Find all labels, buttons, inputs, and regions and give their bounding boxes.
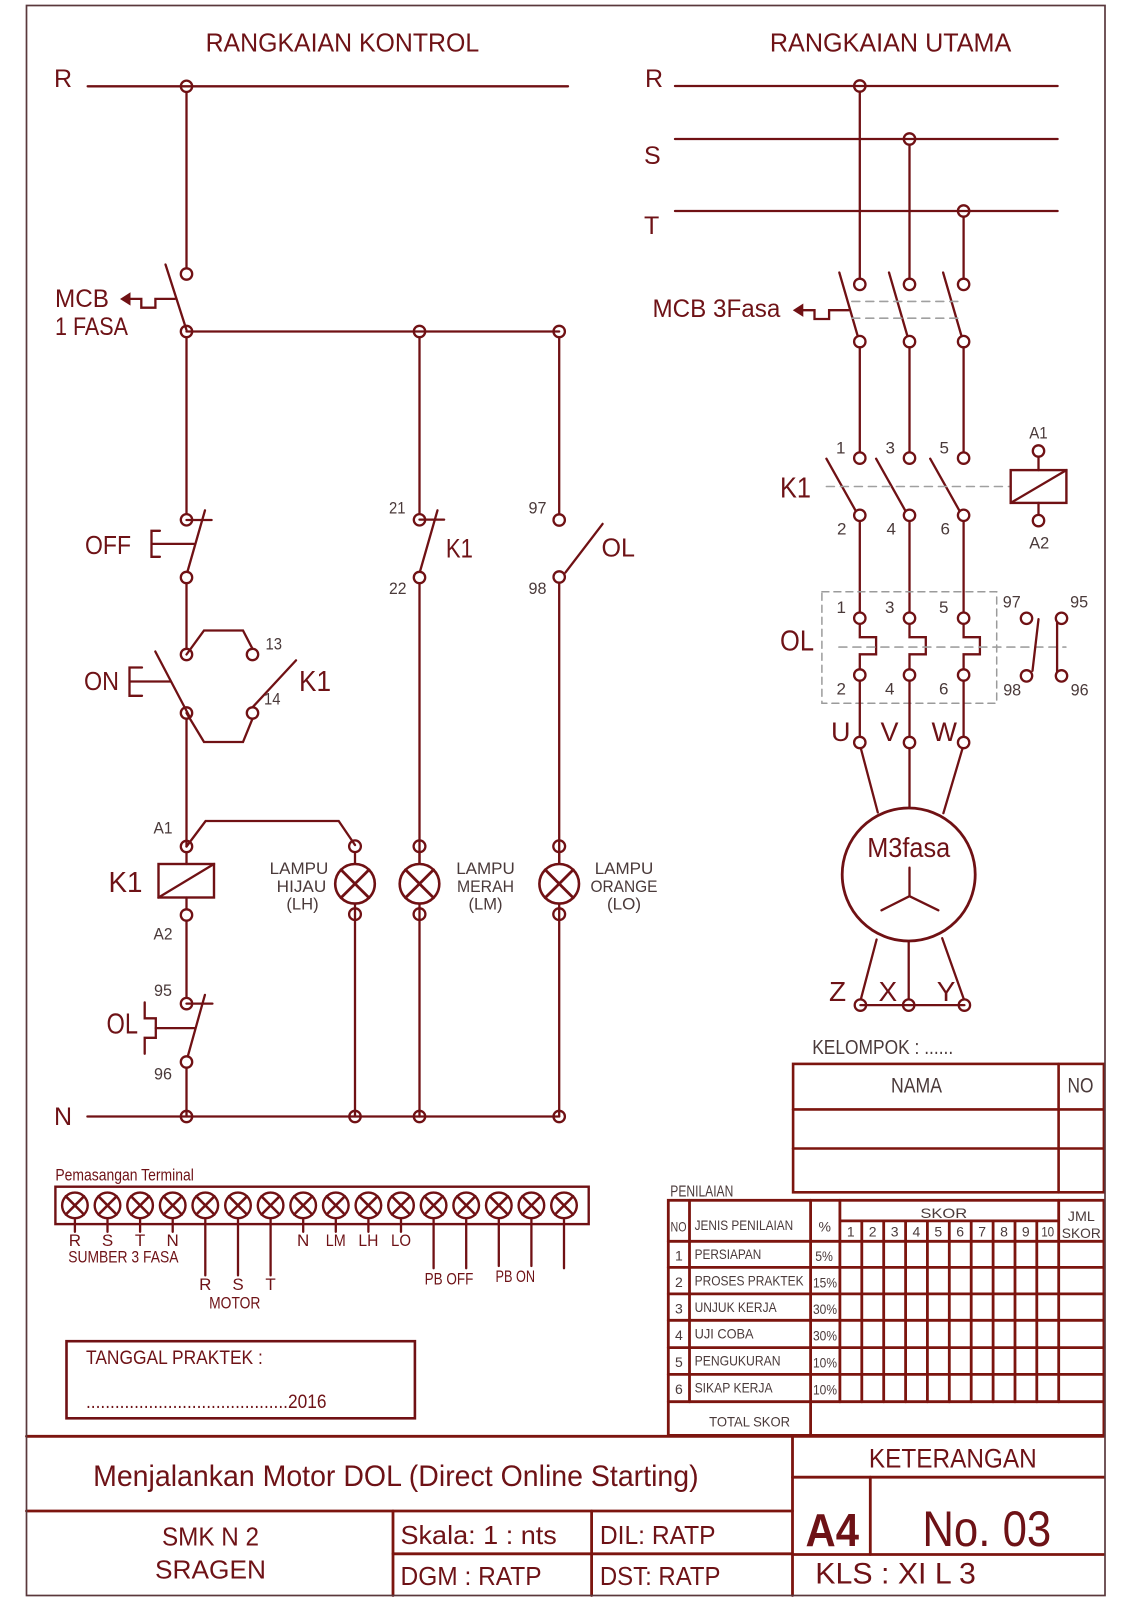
svg-text:4: 4 bbox=[885, 680, 894, 699]
node A1 (control coil) bbox=[181, 841, 192, 852]
terminal Y bbox=[959, 999, 970, 1010]
wire A1 bridge to lamp LH bbox=[187, 821, 356, 847]
lamp LH (hijau) bbox=[335, 840, 375, 1116]
lamp LO (orange) bbox=[539, 840, 579, 1116]
wire bus to OFF bbox=[185, 337, 187, 514]
terminal W bbox=[958, 737, 969, 748]
svg-text:N: N bbox=[297, 1231, 309, 1250]
svg-text:LAMPU: LAMPU bbox=[456, 859, 515, 878]
wire motor to Z bbox=[861, 940, 877, 1000]
wire OL pin6 to W bbox=[962, 681, 964, 737]
wire MCB to K1 pin 1 bbox=[859, 347, 861, 452]
svg-text:13: 13 bbox=[266, 635, 283, 654]
svg-text:KELOMPOK : ......: KELOMPOK : ...... bbox=[812, 1037, 953, 1059]
svg-text:ON: ON bbox=[84, 666, 119, 696]
table PENILAIAN grid bbox=[668, 1200, 1104, 1435]
svg-text:98: 98 bbox=[529, 579, 547, 598]
terminal X bbox=[903, 999, 914, 1010]
seal-in contact K1 13-14 bbox=[187, 631, 297, 743]
svg-text:T: T bbox=[644, 212, 659, 240]
svg-text:MCB 3Fasa: MCB 3Fasa bbox=[653, 295, 781, 323]
svg-text:1: 1 bbox=[837, 598, 846, 617]
wire A2 to OL 95 bbox=[185, 921, 187, 998]
node N at lamp LM bbox=[414, 1111, 425, 1122]
svg-text:6: 6 bbox=[675, 1381, 683, 1397]
wire R to MCB pole 1 bbox=[859, 92, 861, 279]
svg-text:NO: NO bbox=[1068, 1075, 1094, 1098]
svg-text:1 FASA: 1 FASA bbox=[55, 313, 128, 341]
svg-text:W: W bbox=[932, 717, 958, 747]
svg-text:96: 96 bbox=[1071, 681, 1089, 700]
svg-text:JENIS PENILAIAN: JENIS PENILAIAN bbox=[695, 1217, 794, 1233]
svg-text:(LM): (LM) bbox=[469, 895, 503, 914]
wire bus to contact 21 bbox=[418, 337, 420, 514]
svg-text:KETERANGAN: KETERANGAN bbox=[869, 1444, 1037, 1474]
svg-text:S: S bbox=[232, 1275, 243, 1294]
node A2 (control coil) bbox=[181, 909, 192, 920]
svg-text:R: R bbox=[645, 65, 663, 93]
svg-text:97: 97 bbox=[1003, 593, 1021, 612]
table PENILAIAN skor numbers bbox=[847, 1224, 1054, 1240]
svg-text:U: U bbox=[831, 717, 851, 747]
wire OL pin2 to U bbox=[859, 681, 861, 737]
svg-text:OL: OL bbox=[107, 1009, 139, 1041]
svg-text:1: 1 bbox=[675, 1248, 683, 1264]
svg-text:LH: LH bbox=[358, 1231, 378, 1250]
wire 22 to lamp LM bbox=[418, 583, 420, 864]
box TANGGAL PRAKTEK bbox=[67, 1341, 415, 1418]
svg-text:30%: 30% bbox=[813, 1301, 837, 1317]
svg-text:X: X bbox=[879, 976, 898, 1007]
wire ON to A1 bbox=[185, 719, 187, 847]
contact K1 21-22 (NC) bbox=[414, 510, 444, 583]
wire Z-X-Y link bbox=[860, 1004, 964, 1006]
svg-text:NAMA: NAMA bbox=[891, 1075, 942, 1098]
svg-text:3: 3 bbox=[885, 598, 894, 617]
wire MCB 1 FASA feed bbox=[185, 92, 187, 267]
breaker MCB 3Fasa bbox=[793, 273, 970, 348]
table PENILAIAN rows text bbox=[675, 1246, 837, 1430]
svg-text:SUMBER 3 FASA: SUMBER 3 FASA bbox=[68, 1248, 179, 1267]
svg-text:22: 22 bbox=[389, 579, 407, 598]
svg-text:Skala: 1 : nts: Skala: 1 : nts bbox=[401, 1520, 557, 1550]
svg-text:MCB: MCB bbox=[55, 285, 109, 313]
terminal tails bbox=[75, 1218, 564, 1275]
svg-text:PB OFF: PB OFF bbox=[425, 1270, 474, 1289]
svg-text:SKOR: SKOR bbox=[920, 1205, 967, 1221]
wire S to MCB pole 2 bbox=[908, 145, 910, 279]
svg-text:9: 9 bbox=[1022, 1224, 1030, 1240]
node N at coil branch bbox=[181, 1111, 192, 1122]
wire N bus bbox=[87, 1115, 559, 1117]
wire K1 pin4 to OL pin3 bbox=[908, 521, 910, 613]
svg-text:SKOR: SKOR bbox=[1062, 1225, 1101, 1241]
svg-text:OL: OL bbox=[602, 533, 636, 563]
svg-text:10%: 10% bbox=[813, 1382, 837, 1398]
svg-text:TANGGAL PRAKTEK :: TANGGAL PRAKTEK : bbox=[86, 1348, 263, 1369]
svg-text:6: 6 bbox=[939, 680, 948, 699]
svg-text:SIKAP KERJA: SIKAP KERJA bbox=[695, 1380, 774, 1396]
svg-text:S: S bbox=[644, 142, 661, 170]
svg-text:3: 3 bbox=[891, 1224, 899, 1240]
svg-text:K1: K1 bbox=[446, 534, 473, 564]
push button OFF (NC) bbox=[152, 510, 212, 583]
svg-text:95: 95 bbox=[1070, 593, 1088, 612]
contactor coil K1 (control) bbox=[159, 852, 215, 909]
svg-text:95: 95 bbox=[154, 981, 172, 1000]
svg-text:5%: 5% bbox=[815, 1248, 833, 1264]
svg-text:DGM : RATP: DGM : RATP bbox=[401, 1561, 542, 1591]
svg-text:PENILAIAN: PENILAIAN bbox=[670, 1184, 733, 1201]
svg-text:14: 14 bbox=[264, 690, 281, 709]
svg-text:MOTOR: MOTOR bbox=[209, 1294, 260, 1313]
svg-text:R: R bbox=[199, 1275, 211, 1294]
svg-text:21: 21 bbox=[389, 498, 406, 517]
push button ON (NO) bbox=[130, 649, 193, 719]
svg-text:T: T bbox=[265, 1275, 275, 1294]
svg-text:Pemasangan Terminal: Pemasangan Terminal bbox=[55, 1167, 193, 1185]
svg-text:OFF: OFF bbox=[85, 530, 131, 560]
svg-text:No. 03: No. 03 bbox=[922, 1500, 1051, 1557]
svg-text:UJI COBA: UJI COBA bbox=[695, 1326, 755, 1342]
contactor K1 main contacts bbox=[826, 452, 1010, 521]
svg-text:10%: 10% bbox=[813, 1355, 837, 1371]
svg-text:A2: A2 bbox=[1029, 534, 1049, 553]
svg-text:5: 5 bbox=[940, 439, 949, 458]
svg-text:4: 4 bbox=[675, 1327, 683, 1343]
terminal U bbox=[854, 737, 865, 748]
wire motor to Y bbox=[942, 938, 964, 999]
svg-text:5: 5 bbox=[675, 1354, 683, 1370]
svg-text:A4: A4 bbox=[806, 1504, 860, 1556]
svg-text:1: 1 bbox=[836, 439, 845, 458]
svg-text:2: 2 bbox=[837, 680, 846, 699]
svg-text:R: R bbox=[54, 65, 72, 93]
svg-text:5: 5 bbox=[939, 598, 948, 617]
svg-text:1: 1 bbox=[847, 1224, 855, 1240]
svg-text:OL: OL bbox=[780, 626, 814, 658]
wire motor to X bbox=[908, 941, 910, 999]
label LAMPU HIJAU (LH) bbox=[270, 859, 329, 913]
svg-text:Y: Y bbox=[937, 976, 956, 1007]
svg-text:M3fasa: M3fasa bbox=[867, 832, 950, 863]
wire R bus (control) bbox=[88, 85, 568, 87]
svg-text:JML: JML bbox=[1068, 1208, 1095, 1224]
svg-text:(LO): (LO) bbox=[607, 895, 641, 914]
svg-text:LO: LO bbox=[391, 1231, 411, 1250]
title block grid bbox=[27, 1436, 1104, 1595]
svg-text:DST: RATP: DST: RATP bbox=[600, 1561, 721, 1591]
svg-text:PENGUKURAN: PENGUKURAN bbox=[695, 1353, 781, 1369]
svg-text:MERAH: MERAH bbox=[457, 877, 514, 896]
svg-text:A1: A1 bbox=[154, 819, 173, 838]
svg-text:4: 4 bbox=[887, 520, 896, 539]
node N at lamp LH bbox=[349, 1111, 360, 1122]
svg-text:3: 3 bbox=[886, 439, 895, 458]
table PENILAIAN header text bbox=[671, 1205, 1101, 1241]
svg-text:RANGKAIAN KONTROL: RANGKAIAN KONTROL bbox=[206, 30, 480, 58]
svg-text:15%: 15% bbox=[813, 1275, 837, 1291]
svg-text:PERSIAPAN: PERSIAPAN bbox=[695, 1246, 762, 1262]
svg-text:NO: NO bbox=[671, 1219, 687, 1235]
node control bus K1 branch bbox=[414, 326, 425, 337]
svg-text:A1: A1 bbox=[1029, 424, 1048, 443]
wire W to motor bbox=[943, 748, 962, 813]
node R bus main bbox=[854, 80, 865, 91]
svg-text:LAMPU: LAMPU bbox=[270, 859, 329, 878]
svg-text:SRAGEN: SRAGEN bbox=[155, 1555, 266, 1585]
svg-text:3: 3 bbox=[675, 1300, 683, 1316]
svg-text:5: 5 bbox=[934, 1224, 942, 1240]
node S bus main bbox=[904, 133, 915, 144]
svg-text:RANGKAIAN UTAMA: RANGKAIAN UTAMA bbox=[770, 30, 1011, 58]
terminal V bbox=[904, 737, 915, 748]
OL aux contact 97-98 (main) bbox=[1021, 613, 1039, 682]
svg-text:10: 10 bbox=[1041, 1224, 1054, 1240]
svg-text:KLS : XI L 3: KLS : XI L 3 bbox=[815, 1558, 976, 1591]
node T bus main bbox=[958, 205, 969, 216]
svg-text:Z: Z bbox=[829, 976, 846, 1007]
OL aux contact 95-96 (main) bbox=[1056, 613, 1067, 682]
lamp LM (merah) bbox=[400, 840, 440, 1116]
node control bus OL branch bbox=[554, 326, 565, 337]
label LAMPU ORANGE (LO) bbox=[591, 859, 658, 913]
svg-text:2: 2 bbox=[837, 520, 846, 539]
overload relay OL dashed box bbox=[822, 592, 997, 703]
svg-text:PROSES PRAKTEK: PROSES PRAKTEK bbox=[695, 1273, 805, 1289]
wire control bus after MCB bbox=[187, 330, 560, 332]
svg-text:%: % bbox=[819, 1219, 831, 1235]
svg-text:LM: LM bbox=[326, 1231, 346, 1250]
label LAMPU MERAH (LM) bbox=[456, 859, 515, 913]
table NAMA bbox=[793, 1064, 1104, 1192]
svg-text:2: 2 bbox=[675, 1274, 683, 1290]
contactor coil K1 A1-A2 (main) bbox=[1011, 445, 1067, 526]
wire K1 pin6 to OL pin5 bbox=[962, 521, 964, 613]
contact OL 97-98 (NO) bbox=[554, 514, 603, 582]
svg-text:..............................: ........................................… bbox=[86, 1392, 327, 1413]
svg-text:(LH): (LH) bbox=[286, 895, 318, 914]
wire 96 to N bus bbox=[185, 1068, 187, 1117]
node control bus left bbox=[181, 326, 192, 337]
svg-text:DIL: RATP: DIL: RATP bbox=[600, 1520, 716, 1550]
svg-text:4: 4 bbox=[913, 1224, 921, 1240]
breaker MCB 1 FASA bbox=[120, 265, 192, 331]
motor M3fasa bbox=[842, 808, 975, 941]
svg-text:30%: 30% bbox=[813, 1328, 837, 1344]
svg-text:Menjalankan Motor DOL (Direct: Menjalankan Motor DOL (Direct Online Sta… bbox=[93, 1460, 699, 1493]
overload relay OL heaters bbox=[839, 613, 1066, 681]
wire S bus (main) bbox=[675, 138, 1058, 140]
svg-text:6: 6 bbox=[941, 520, 950, 539]
wire MCB to K1 pin 5 bbox=[962, 347, 964, 452]
wire K1 pin2 to OL pin1 bbox=[859, 521, 861, 613]
svg-text:98: 98 bbox=[1003, 681, 1021, 700]
terminal circles bbox=[62, 1193, 577, 1219]
wire T bus (main) bbox=[675, 210, 1058, 212]
node N at lamp LO bbox=[554, 1111, 565, 1122]
svg-text:UNJUK KERJA: UNJUK KERJA bbox=[695, 1299, 778, 1315]
svg-text:PB ON: PB ON bbox=[496, 1267, 536, 1286]
wire 98 to lamp LO bbox=[558, 583, 560, 865]
wire OL pin4 to V bbox=[908, 681, 910, 737]
wire R bus (main) bbox=[675, 85, 1058, 87]
wire U to motor bbox=[861, 748, 878, 812]
svg-text:8: 8 bbox=[1000, 1224, 1008, 1240]
svg-text:7: 7 bbox=[978, 1224, 986, 1240]
svg-text:N: N bbox=[54, 1103, 72, 1131]
svg-text:TOTAL SKOR: TOTAL SKOR bbox=[709, 1414, 790, 1430]
wire T to MCB pole 3 bbox=[962, 217, 964, 279]
svg-text:ORANGE: ORANGE bbox=[591, 877, 658, 896]
svg-text:K1: K1 bbox=[780, 473, 811, 505]
wire MCB to K1 pin 3 bbox=[908, 347, 910, 452]
terminal strip box bbox=[55, 1187, 588, 1224]
svg-text:LAMPU: LAMPU bbox=[595, 859, 654, 878]
terminal Z bbox=[855, 999, 866, 1010]
svg-text:96: 96 bbox=[154, 1065, 172, 1084]
svg-text:V: V bbox=[881, 717, 899, 747]
svg-text:K1: K1 bbox=[109, 867, 143, 899]
svg-text:2: 2 bbox=[869, 1224, 877, 1240]
svg-text:97: 97 bbox=[529, 498, 547, 517]
wire OFF to ON bbox=[185, 583, 187, 649]
svg-text:6: 6 bbox=[956, 1224, 964, 1240]
svg-text:K1: K1 bbox=[299, 666, 331, 698]
node R bus / MCB feed bbox=[181, 81, 192, 92]
svg-text:A2: A2 bbox=[154, 925, 173, 944]
wire bus to contact 97 bbox=[558, 337, 560, 514]
svg-text:HIJAU: HIJAU bbox=[277, 877, 327, 896]
svg-text:SMK N 2: SMK N 2 bbox=[162, 1522, 259, 1552]
overload contact OL 95-96 (NC) bbox=[145, 995, 213, 1068]
wire V to motor bbox=[908, 748, 910, 808]
